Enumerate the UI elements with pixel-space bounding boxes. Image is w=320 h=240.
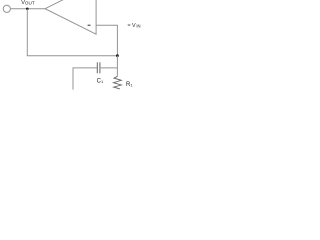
svg-text:VOUT: VOUT bbox=[21, 0, 35, 6]
node feedback junction dot bbox=[116, 54, 119, 57]
capacitor C1 plates bbox=[96, 62, 98, 73]
output terminal circle bbox=[3, 5, 10, 12]
svg-text:≈ VIN: ≈ VIN bbox=[128, 23, 141, 29]
wire: inverting input to right then down to feedback node bbox=[96, 25, 117, 56]
wire: VOUT node down (feedback left vertical) bbox=[26, 9, 28, 56]
wire: terminal to op-amp output apex bbox=[10, 8, 45, 10]
wire: C1 right lead bbox=[100, 67, 118, 69]
wire: feedback node down to C1/R1 tee bbox=[116, 56, 118, 77]
wire: feedback bottom horizontal bbox=[27, 55, 118, 57]
op-amp inverting input minus sign bbox=[88, 24, 91, 26]
node VOUT junction dot bbox=[26, 7, 29, 10]
wire: C1 branch left vertical (cut at bottom edge) bbox=[72, 68, 74, 90]
wire: C1 left lead bbox=[73, 67, 98, 69]
op-amp U1 (apex at left, top cut off by image edge) bbox=[45, 0, 96, 34]
svg-text:R1: R1 bbox=[126, 82, 133, 88]
svg-text:C1: C1 bbox=[97, 78, 104, 84]
resistor R1 zigzag bbox=[114, 76, 122, 89]
